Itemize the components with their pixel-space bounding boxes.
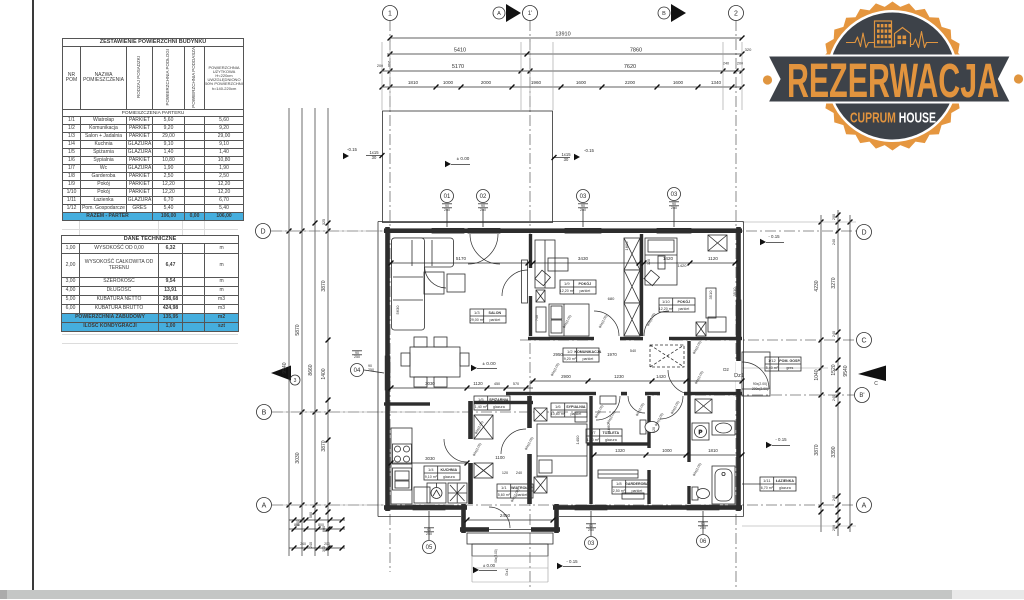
svg-text:parkiet: parkiet	[582, 357, 593, 361]
top dim total 13910	[390, 37, 742, 39]
right dim line 4230 1040 3870	[820, 215, 822, 532]
svg-text:8660: 8660	[308, 364, 314, 375]
interior dims living south	[391, 387, 533, 389]
svg-text:7860: 7860	[630, 48, 642, 54]
bathroom bathtub	[712, 466, 735, 504]
svg-text:120: 120	[647, 259, 651, 265]
top dim 5410 7860	[387, 53, 742, 55]
door arc sypialnia	[596, 396, 620, 420]
svg-text:3430: 3430	[578, 256, 589, 261]
svg-text:1000: 1000	[443, 80, 454, 85]
door arc kitchen	[444, 439, 467, 462]
left dim bottom cluster	[289, 519, 345, 521]
window O5 bottom	[413, 505, 445, 510]
window marker O2	[477, 190, 490, 203]
vestibule door gap	[489, 527, 531, 532]
axis bubble D right	[857, 225, 872, 240]
svg-text:9,20 m²: 9,20 m²	[564, 357, 577, 361]
svg-text:3870: 3870	[321, 440, 327, 451]
axis bubble 1' top	[523, 6, 538, 21]
axis line B' horizontal right	[600, 394, 854, 396]
svg-text:1/8: 1/8	[616, 481, 622, 486]
terrace double door arcs	[468, 234, 498, 264]
right dim line 9540	[849, 215, 851, 532]
svg-text:01: 01	[444, 194, 451, 200]
wardrobe sypialnia lower	[534, 477, 547, 493]
svg-text:1420: 1420	[656, 374, 666, 379]
axis bubble B' right	[855, 388, 870, 403]
svg-text:parkiet: parkiet	[678, 307, 689, 311]
logo heartbeat line	[846, 32, 938, 48]
left dim line 5870 3030	[301, 108, 303, 556]
axis bubble A left	[257, 498, 272, 513]
corridor south wall	[460, 392, 742, 395]
svg-text:1040: 1040	[814, 369, 820, 380]
svg-text:POKÓJ: POKÓJ	[678, 299, 691, 304]
svg-text:250: 250	[354, 355, 360, 359]
svg-text:-0.15: -0.15	[347, 147, 358, 152]
svg-text:560: 560	[309, 512, 313, 518]
logo house icon	[895, 28, 911, 48]
svg-text:1600: 1600	[673, 80, 684, 85]
svg-text:90x(2.00): 90x(2.00)	[562, 314, 572, 329]
shaft box bedroom2 corner	[708, 235, 727, 251]
svg-text:- 0.15: - 0.15	[768, 234, 780, 239]
chair bedroom2	[644, 270, 659, 285]
corridor north wall	[528, 337, 742, 340]
door arc bathroom	[660, 396, 683, 419]
svg-text:6,70 m²: 6,70 m²	[761, 486, 774, 490]
svg-text:1: 1	[388, 11, 392, 18]
outer wall bottom left segment	[384, 505, 467, 510]
window on left wall	[385, 356, 390, 390]
svg-text:90x(2.00): 90x(2.00)	[753, 382, 767, 386]
top dim 5170 7620 row	[382, 70, 742, 72]
right dim extension lines	[742, 221, 856, 223]
svg-text:2000: 2000	[481, 80, 492, 85]
svg-text:9540: 9540	[843, 365, 849, 376]
section flag top right	[671, 4, 686, 22]
svg-text:B': B'	[859, 393, 864, 399]
svg-text:- 0.15: - 0.15	[566, 559, 578, 564]
svg-text:1340: 1340	[711, 80, 722, 85]
svg-text:1,90 m²: 1,90 m²	[587, 438, 600, 442]
svg-text:240: 240	[300, 542, 306, 546]
svg-text:1960: 1960	[531, 80, 542, 85]
bathroom washer	[692, 423, 709, 440]
entry partition wall	[687, 341, 690, 396]
svg-text:parkiet: parkiet	[489, 318, 500, 322]
kitchen stove	[393, 444, 412, 464]
axis line C horizontal	[520, 339, 856, 341]
svg-text:450: 450	[494, 382, 500, 386]
wc basin	[600, 396, 616, 404]
axis line D horizontal	[271, 230, 856, 232]
left dim line 3870 1400	[327, 108, 329, 556]
svg-text:90x(2.00): 90x(2.00)	[692, 340, 702, 355]
svg-text:5,40 m²: 5,40 m²	[766, 366, 779, 370]
svg-text:A: A	[262, 503, 267, 510]
axis bubble 1 top	[383, 6, 398, 21]
window marker O3 top	[577, 190, 590, 203]
vestibule wall right stub	[554, 504, 559, 533]
axis bubble D left	[256, 224, 271, 239]
door gap bedroom1	[594, 336, 620, 340]
window marker O6 bottom	[697, 535, 710, 548]
svg-text:200: 200	[324, 542, 330, 546]
logo left dot	[763, 75, 772, 84]
room label wiatrolap	[497, 484, 533, 498]
svg-text:1/6: 1/6	[555, 404, 561, 409]
svg-text:2950: 2950	[553, 352, 563, 357]
garderoba shelf	[598, 470, 638, 478]
svg-text:C: C	[874, 381, 878, 387]
svg-text:12,20 m²: 12,20 m²	[560, 289, 575, 293]
svg-text:1/9: 1/9	[564, 281, 570, 286]
svg-text:D: D	[861, 230, 866, 237]
door arc entry inner	[668, 370, 692, 394]
door arc hall	[501, 429, 526, 454]
svg-text:ŁAZIENKA: ŁAZIENKA	[776, 479, 795, 483]
svg-text:POKÓJ: POKÓJ	[579, 281, 592, 286]
LOGO SVG: REZERWACJA / CUPRUM HOUSE badge	[0, 0, 1024, 170]
svg-text:P: P	[699, 430, 703, 436]
door arc bedroom1	[594, 311, 619, 336]
logo skyline icon: tall building	[875, 21, 892, 47]
svg-text:5410: 5410	[454, 48, 466, 54]
svg-text:2: 2	[734, 11, 738, 18]
svg-text:800: 800	[318, 523, 324, 527]
room label bedroom2	[659, 298, 695, 312]
opening living south	[430, 401, 467, 407]
interior wall living/bedroom1	[529, 234, 532, 336]
door arc bedroom2	[644, 311, 669, 336]
svg-text:240: 240	[832, 495, 836, 501]
shaft box kitchen lower	[474, 463, 493, 478]
svg-text:90x(2.00): 90x(2.00)	[606, 410, 616, 425]
window O1 top	[432, 228, 464, 233]
svg-text:WIATROŁAP: WIATROŁAP	[511, 486, 533, 490]
svg-text:parkiet: parkiet	[570, 412, 581, 416]
door gap hall	[526, 428, 533, 454]
svg-text:120: 120	[652, 427, 656, 433]
svg-text:SYPIALNIA: SYPIALNIA	[566, 405, 586, 409]
room label sypialnia	[551, 403, 587, 417]
window marker O5 bottom	[423, 541, 436, 554]
svg-text:90x(2.00): 90x(2.00)	[635, 402, 645, 417]
svg-text:parkiet: parkiet	[631, 489, 642, 493]
axis line 1 vertical	[389, 20, 391, 572]
roof flag C right	[858, 366, 886, 382]
svg-text:D2: D2	[723, 367, 729, 372]
svg-text:90x(2.00): 90x(2.00)	[598, 314, 608, 329]
svg-text:04: 04	[354, 368, 361, 374]
door arc vestibule	[489, 507, 510, 528]
svg-text:570: 570	[513, 382, 519, 386]
axis bubble B left	[257, 405, 272, 420]
svg-text:90x(2.00): 90x(2.00)	[692, 462, 702, 477]
svg-text:1000: 1000	[662, 448, 672, 453]
window marker O3b bottom	[585, 537, 598, 550]
svg-text:SPIŻARNIA: SPIŻARNIA	[489, 398, 509, 402]
svg-text:240: 240	[832, 239, 836, 245]
svg-text:200x(2.00): 200x(2.00)	[752, 387, 768, 391]
svg-text:± 0.00: ± 0.00	[457, 156, 470, 161]
logo building windows	[877, 24, 891, 44]
svg-text:1/1: 1/1	[501, 485, 507, 490]
bathroom basin	[712, 421, 735, 435]
tv shelf living	[522, 260, 528, 303]
svg-text:06: 06	[700, 539, 707, 545]
svg-text:2,50 m²: 2,50 m²	[613, 489, 626, 493]
svg-text:1320: 1320	[615, 448, 625, 453]
axis bubble 2 top	[729, 6, 744, 21]
outer wall right	[736, 227, 741, 511]
interior wall bedroom1/bedroom2	[640, 234, 643, 336]
wardrobe bedroom1 east	[624, 238, 640, 270]
window marker O3c top right	[668, 188, 681, 201]
left dim line 8660	[314, 108, 316, 556]
room label komunikacja	[563, 348, 602, 362]
bed sypialnia south	[537, 424, 587, 476]
room label lazienka outside	[760, 477, 796, 491]
pantry shelf wall	[474, 401, 533, 404]
svg-text:5630: 5630	[395, 305, 400, 315]
room label salon	[470, 309, 506, 323]
section flag top left	[506, 4, 521, 22]
table bedroom1	[548, 258, 568, 271]
nightstand sypialnia	[575, 412, 587, 422]
svg-text:13910: 13910	[555, 32, 570, 38]
closet bedroom1	[535, 240, 555, 288]
kitchen symbol fan	[448, 483, 467, 503]
svg-text:1120: 1120	[708, 256, 718, 261]
svg-text:320: 320	[745, 47, 752, 52]
svg-text:240: 240	[387, 61, 391, 67]
sofa corner living	[392, 238, 454, 330]
svg-text:03: 03	[580, 194, 587, 200]
bed bedroom1	[549, 304, 589, 336]
svg-text:240: 240	[723, 62, 729, 66]
svg-text:9,10 m²: 9,10 m²	[425, 475, 438, 479]
wc toilet	[640, 420, 659, 434]
svg-text:1/11: 1/11	[763, 478, 771, 483]
door arc wc	[628, 396, 645, 413]
axis bubble A right	[857, 498, 872, 513]
interior dims kitchen	[391, 462, 467, 464]
terrace outline	[383, 111, 553, 223]
bottom scrollbar thumb	[7, 590, 952, 599]
living south wall	[384, 402, 467, 405]
svg-text:05: 05	[426, 545, 433, 551]
window on right wall	[736, 300, 741, 338]
axis bubble C right	[857, 333, 872, 348]
svg-text:1/10: 1/10	[662, 299, 671, 304]
garderoba rug	[622, 493, 644, 499]
svg-text:3: 3	[294, 378, 297, 384]
svg-text:90x(2.00): 90x(2.00)	[646, 312, 656, 327]
technical data table (DANE TECHNICZNE)	[61, 235, 239, 332]
outer wall top	[384, 228, 742, 233]
svg-text:90x(2.00): 90x(2.00)	[670, 400, 680, 415]
svg-text:3030: 3030	[295, 452, 301, 463]
dining chairs	[414, 337, 427, 347]
svg-text:90x(2.00): 90x(2.00)	[550, 362, 560, 377]
room label kuchnia	[424, 466, 460, 480]
entrance door Dz1 arc	[742, 362, 769, 389]
svg-text:C: C	[861, 338, 866, 345]
svg-text:1/3: 1/3	[474, 310, 480, 315]
vestibule front wall right	[531, 527, 560, 532]
svg-text:740: 740	[535, 315, 539, 321]
svg-text:240: 240	[516, 471, 522, 475]
svg-text:parkiet: parkiet	[579, 289, 590, 293]
svg-text:3510: 3510	[732, 287, 737, 297]
svg-text:1420: 1420	[663, 256, 674, 261]
coffee table living	[424, 272, 444, 294]
window O3 top	[565, 228, 601, 233]
svg-text:A: A	[497, 11, 501, 17]
outer wall skin lines	[377, 222, 379, 517]
door gap kitchen	[467, 439, 474, 463]
kitchen symbol lamp	[427, 483, 446, 503]
dining table	[410, 347, 460, 377]
faint spreadsheet gridlines between tables	[0, 0, 260, 360]
closet bedroom2 right	[706, 288, 716, 318]
svg-text:10,80 m²: 10,80 m²	[551, 412, 566, 416]
sypialnia east wall	[589, 396, 592, 504]
svg-text:-0.15: -0.15	[584, 148, 595, 153]
window O6 bottom	[687, 505, 719, 510]
wardrobe sypialnia upper	[534, 408, 547, 421]
svg-text:1/4: 1/4	[428, 467, 434, 472]
svg-text:800: 800	[294, 523, 300, 527]
svg-text:1400: 1400	[575, 435, 580, 445]
svg-text:120: 120	[502, 471, 508, 475]
entrance steps	[467, 533, 553, 544]
svg-text:1810: 1810	[708, 448, 718, 453]
svg-text:5170: 5170	[452, 64, 464, 70]
svg-text:200: 200	[832, 214, 836, 220]
entry opening right wall	[736, 361, 742, 389]
svg-text:3030: 3030	[425, 381, 435, 386]
door gap bedroom2	[643, 336, 669, 340]
svg-text:1': 1'	[528, 11, 532, 17]
svg-text:1970: 1970	[607, 352, 617, 357]
door gap bathroom	[660, 391, 684, 396]
logo ribbon banner	[768, 56, 1012, 103]
vestibule front wall left	[460, 527, 489, 532]
svg-text:3390: 3390	[831, 446, 837, 457]
svg-text:POM. GOSP.: POM. GOSP.	[779, 359, 800, 363]
terrace door O2 top	[468, 228, 500, 233]
svg-text:1100: 1100	[495, 455, 505, 460]
svg-text:glazura: glazura	[493, 405, 505, 409]
bottom entrance dims	[467, 519, 553, 521]
svg-text:5870: 5870	[295, 324, 301, 335]
room label wc	[586, 429, 622, 443]
entry stoop right outside	[742, 352, 770, 396]
logo right dot	[1014, 74, 1023, 83]
svg-text:2900: 2900	[561, 374, 571, 379]
svg-text:B: B	[262, 410, 267, 417]
bottom scrollbar left button	[0, 590, 7, 599]
svg-text:240: 240	[832, 395, 836, 401]
opening corridor west	[460, 391, 506, 396]
logo house window panes	[898, 36, 907, 45]
svg-text:1600: 1600	[624, 241, 629, 251]
logo white ring	[827, 10, 959, 142]
hall east wall	[527, 396, 532, 504]
bathroom west wall	[687, 396, 690, 504]
svg-text:3270: 3270	[831, 277, 837, 288]
svg-text:SALON: SALON	[489, 311, 502, 315]
svg-text:± 0.00: ± 0.00	[483, 563, 496, 568]
svg-text:4230: 4230	[814, 280, 820, 291]
svg-text:90x(2.00): 90x(2.00)	[594, 404, 604, 419]
svg-text:03: 03	[588, 541, 595, 547]
svg-text:1/12: 1/12	[768, 358, 777, 363]
svg-text:325: 325	[322, 219, 326, 225]
svg-text:3870: 3870	[321, 280, 327, 291]
svg-text:250: 250	[368, 368, 374, 372]
top dim extension lines	[381, 42, 383, 110]
interior dims top rooms	[391, 262, 528, 264]
svg-text:240: 240	[309, 542, 313, 548]
svg-text:1230: 1230	[614, 374, 624, 379]
svg-text:12,20 m²: 12,20 m²	[659, 307, 674, 311]
chair bedroom1	[535, 270, 550, 285]
left dim extension lines	[282, 230, 390, 232]
fridge	[414, 487, 430, 503]
wc garderoba wall	[647, 396, 650, 504]
interior dims south rooms	[594, 454, 742, 456]
logo gear ring	[818, 2, 967, 151]
svg-text:KOMUNIKACJA: KOMUNIKACJA	[574, 350, 601, 354]
window marker O1	[441, 190, 454, 203]
area summary table (ZESTAWIENIE POWIERZCHNI BUDYNKU)	[62, 38, 244, 221]
svg-text:KUCHNIA: KUCHNIA	[441, 468, 458, 472]
svg-text:03: 03	[671, 192, 678, 198]
room label bedroom1	[560, 280, 596, 294]
svg-text:540: 540	[630, 349, 636, 353]
svg-text:glazura: glazura	[605, 438, 617, 442]
svg-text:7620: 7620	[624, 64, 636, 70]
svg-text:± 0.00: ± 0.00	[482, 361, 496, 367]
axis line 1' vertical	[529, 20, 531, 590]
svg-text:Dz1: Dz1	[734, 373, 744, 379]
room label spizarnia	[474, 396, 510, 410]
svg-text:1400: 1400	[321, 368, 327, 379]
svg-text:D: D	[260, 229, 265, 236]
wc garderoba divider	[587, 442, 648, 445]
svg-text:9540: 9540	[282, 362, 288, 373]
left dim line 9540	[288, 108, 290, 556]
svg-text:3510: 3510	[708, 290, 713, 300]
door gap sypialnia	[596, 391, 621, 396]
svg-text:90x(2.00): 90x(2.00)	[694, 370, 704, 385]
window marker O4 left	[351, 364, 364, 377]
logo dark disc	[829, 13, 956, 140]
svg-text:1120: 1120	[473, 381, 483, 386]
door gap bathroom west	[686, 462, 692, 486]
svg-text:glazura: glazura	[443, 475, 455, 479]
window O4 top right	[657, 228, 691, 233]
svg-text:glazura: glazura	[779, 486, 791, 490]
svg-text:1,40 m²: 1,40 m²	[475, 405, 488, 409]
svg-text:B: B	[662, 11, 666, 17]
svg-text:2200: 2200	[625, 80, 636, 85]
